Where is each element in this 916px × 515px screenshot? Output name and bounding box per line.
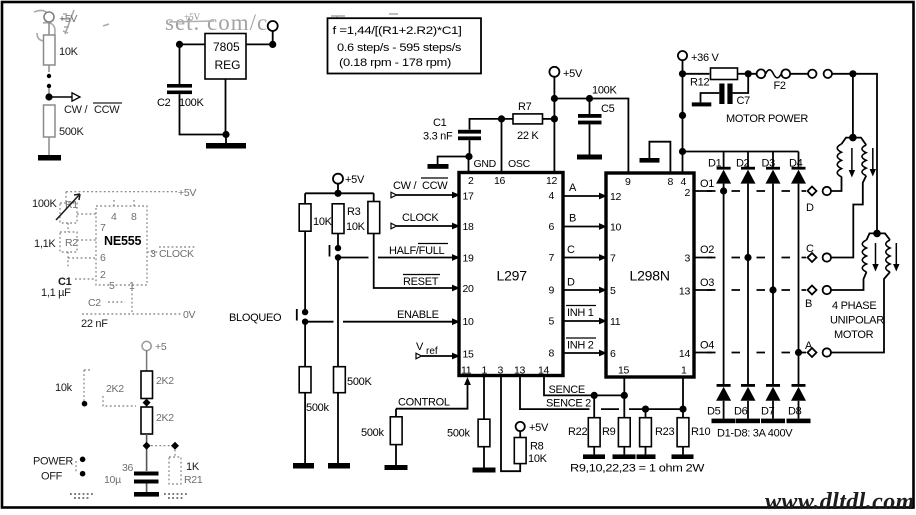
wire +5V rail across pull-ups [305,184,374,204]
wire R2 to C1 (dotted) [67,252,69,268]
IC L297 [459,173,563,376]
wire D4/D8 column [798,184,800,386]
node 7805 ground [222,131,229,138]
wire 7805 ground pin [225,79,227,135]
svg-text:+36 V: +36 V [691,52,720,64]
wire O2 (dashed) [694,244,806,258]
ground (mid pulldown) [328,393,350,469]
ground (C5) [577,155,602,160]
node aux divider mid [143,399,151,407]
svg-text:10k: 10k [55,382,73,394]
svg-text:C7: C7 [737,95,751,107]
L297 right pin numbers 4,6,7,9,5,8 [548,190,554,360]
terminal +5 (aux circuit, faint) [142,341,167,353]
L298N top pin numbers 9,8,4 [625,176,687,188]
regulator 7805 [205,34,246,80]
wire phase A (L297 pin4 to L298N pin12) [563,182,607,199]
svg-text:7805: 7805 [213,40,240,54]
motor winding phase A [877,233,890,272]
svg-text:100K: 100K [32,198,57,210]
wire D2/D6 column [747,184,749,386]
svg-text:ENABLE: ENABLE [397,309,439,321]
svg-text:C2: C2 [88,297,101,309]
svg-text:3: 3 [498,365,504,377]
svg-text:POWER: POWER [33,456,73,468]
svg-text:10: 10 [610,222,622,234]
wire C1 bottom to GND node [469,140,471,156]
svg-text:UNIPOLAR: UNIPOLAR [830,315,884,327]
ground (7805) [206,135,246,149]
svg-text:R12: R12 [690,77,709,89]
node C5 tap [586,95,593,102]
wire phase C to winding [831,176,866,258]
node 7805 input [176,41,183,48]
resistor R12 [683,68,738,89]
wire ENABLE to pin 10 [305,309,460,325]
svg-text:13: 13 [514,365,526,377]
label 4 PHASE UNIPOLAR MOTOR [830,300,884,341]
svg-text:12: 12 [610,191,622,203]
svg-text:+5V: +5V [184,12,201,22]
svg-text:C5: C5 [601,103,615,115]
svg-text:MOTOR POWER: MOTOR POWER [726,113,808,125]
svg-text:A: A [805,340,813,352]
motor winding phase C [853,138,866,176]
svg-text:17: 17 [463,191,475,203]
node +5V / 100K rail [551,95,558,102]
diode D4 [789,152,806,184]
wire RESET pull-up to pin 20 [374,234,460,292]
svg-text:O2: O2 [700,244,714,256]
svg-text:2: 2 [684,187,690,199]
svg-text:GND: GND [474,158,497,170]
svg-text:4 PHASE: 4 PHASE [832,300,876,312]
node C1 / GND [465,153,472,160]
svg-text:11: 11 [461,365,472,377]
input CW/CCW [391,178,460,198]
svg-text:6: 6 [100,252,106,264]
connector phase C [806,243,831,262]
svg-text:INH 1: INH 1 [567,307,594,319]
diode D3 [762,152,781,184]
svg-text:11: 11 [610,316,621,328]
svg-text:500K: 500K [347,376,372,388]
wire phase B (pin6 to pin10) [563,213,607,230]
diode D8 [788,384,806,419]
resistor 500K (divider bottom) [44,105,85,138]
ground (control 500k) [385,445,408,470]
wire GND node to ground [438,157,469,165]
node SENCE / R9 [621,392,628,399]
svg-text:3: 3 [150,248,156,260]
resistor R7 22K [513,101,543,142]
svg-text:0.6 step/s - 595 steps/s: 0.6 step/s - 595 steps/s [337,42,462,54]
terminal +5V (7805 output) [268,21,278,31]
svg-text:500k: 500k [361,427,384,439]
svg-text:OFF: OFF [41,471,63,483]
connector phase D [806,187,831,215]
capacitor C7 [719,74,750,107]
svg-text:D: D [567,277,575,289]
L297 top pin numbers 2,16,12 [468,175,558,187]
L297 left pin numbers 17,18,19,20,10,15 [463,191,475,361]
pin name labels GND OSC [474,158,531,170]
svg-text:+5: +5 [155,341,167,353]
svg-text:R1: R1 [65,199,78,211]
svg-text:CCW: CCW [422,180,448,192]
wire pin 16 (OSC) stub [501,119,503,173]
resistor 500k (pin 1 pulldown) [447,419,490,447]
motor winding phase B [862,233,877,272]
svg-text:0V: 0V [183,309,196,321]
terminal +5V (speed pot divider) [44,12,77,25]
svg-text:13: 13 [679,286,691,298]
capacitor C1 3.3nF [423,117,481,143]
wire phase C (pin7 to pin7) [563,244,607,261]
svg-text:10µ: 10µ [104,474,121,486]
svg-text:C: C [567,244,575,256]
svg-text:+5V: +5V [178,187,196,199]
ground (aux cap) [134,484,159,497]
wire pin 3 to R8 bottom [501,376,520,472]
resistor R10 1 ohm [677,409,710,447]
connector dots (pot wiper) [47,74,51,94]
svg-text:R10: R10 [691,426,710,438]
svg-text:BLOQUEO: BLOQUEO [229,312,282,324]
svg-text:MOTOR: MOTOR [834,329,874,341]
svg-text:A: A [569,182,577,194]
wire INH 1 (pin5 to pin11) [563,306,607,325]
svg-text:8: 8 [131,211,137,223]
svg-text:19: 19 [463,253,475,265]
svg-text:INH 2: INH 2 [567,340,594,352]
wire 7805 input (left) [180,43,206,45]
ground (C7) [692,93,720,106]
ground (aux 1K, dashed) [164,494,187,498]
ground (power off, dashed) [70,494,94,498]
wire left column to 500k [304,322,306,367]
wire diode cathode rail (D1-D4) [683,151,799,153]
wire D1/D5 column [723,184,725,386]
svg-text:500k: 500k [447,428,470,440]
ground (R22) [583,447,605,459]
svg-text:3.3 nF: 3.3 nF [423,131,453,143]
svg-text:9: 9 [625,176,631,188]
wire 10K to BLOQUEO switch [304,231,306,312]
svg-text:www.dltdl.com: www.dltdl.com [765,489,915,515]
svg-text:F2: F2 [774,80,786,92]
svg-text:(0.18 rpm - 178 rpm): (0.18 rpm - 178 rpm) [339,57,451,69]
svg-text:1: 1 [681,365,687,377]
svg-text:9: 9 [548,285,554,297]
svg-text:500K: 500K [59,126,84,138]
switch POWER OFF [33,456,85,483]
current arrow (winding A) [893,243,899,272]
svg-text:C2: C2 [157,97,171,109]
svg-text:100K: 100K [592,85,617,97]
wire pins 4,8 to +5V (dotted) [114,198,134,206]
svg-text:1,1K: 1,1K [34,238,56,250]
svg-text:2: 2 [468,175,474,187]
wire R12 to F2 node [738,73,757,75]
wire 7805 output (right) [246,43,273,45]
wire R3 to HALF/FULL switch [337,234,339,249]
svg-text:D6: D6 [734,406,748,418]
svg-text:6: 6 [548,221,554,233]
node aux 1K tap [171,442,179,450]
diode D5 [707,384,731,419]
wire SENCE 2: pin 13 to R23/R10 to L298N pin 1 [520,376,683,410]
wire 500K to ground [48,137,50,155]
resistor pull-up (RESET) [368,202,380,234]
L298N bottom pin numbers 15,1 [618,365,687,377]
node SENCE2 / R23 [642,406,649,413]
node O4/D4 [795,349,802,356]
resistor R23 1 ohm [640,409,675,447]
ground (D6) [736,419,760,424]
resistor R8 10K [514,431,547,465]
svg-text:R2: R2 [65,237,78,249]
svg-text:7: 7 [548,252,554,264]
resistor 500K (mid pulldown) [334,367,373,393]
wire aux divider to cap [146,434,148,471]
svg-text:HALF/FULL: HALF/FULL [389,245,445,257]
svg-text:6: 6 [610,348,616,360]
wire common feed 1 [852,74,854,138]
terminal +36V [678,51,720,64]
resistor 500k (control) [361,409,402,445]
wire O3 (dashed) [694,277,806,290]
node +36V / R12 [679,70,686,77]
svg-text:7: 7 [610,253,616,265]
wire C5 to ground [589,124,591,154]
svg-text:REG: REG [215,58,241,72]
node motor common 1 [849,134,857,142]
capacitor C2 100K [157,84,204,109]
switch BLOQUEO [229,309,308,325]
wire phase B to winding [831,272,867,290]
terminal +5V (R8) [516,422,549,434]
node SENCE / R22 [591,392,598,399]
ground (L297 GND) [428,164,449,169]
svg-text:2: 2 [100,269,106,281]
current arrow (winding B) [872,243,878,272]
capacitor C5 [578,99,615,125]
svg-text:R7: R7 [518,101,532,113]
wire F2 to supply connector [790,73,808,75]
ground (D8) [787,419,811,424]
svg-text:D1-D8: 3A 400V: D1-D8: 3A 400V [717,428,793,440]
ground (R9) [613,447,636,459]
current arrow (winding C) [870,148,876,177]
svg-text:10K: 10K [313,216,333,228]
svg-text:18: 18 [463,221,475,233]
input Vref [416,341,460,359]
svg-text:8: 8 [668,176,674,188]
svg-text:5: 5 [109,280,115,292]
svg-text:R3: R3 [347,206,361,218]
diode D7 [761,384,781,419]
svg-text:2K2: 2K2 [156,412,174,424]
wire pin 6 (dotted) [68,257,96,259]
capacitor C2 22nF (NE555) [81,297,125,330]
fuse F2 [757,69,791,92]
wire phase A to winding [831,272,890,353]
wire INH 2 (pin8 to pin6) [563,338,607,356]
svg-text:CLOCK: CLOCK [402,212,439,224]
svg-text:2K2: 2K2 [106,383,124,395]
svg-text:10K: 10K [59,46,79,58]
node aux cap top [143,442,151,450]
svg-text:15: 15 [618,365,630,377]
svg-text:R21: R21 [184,474,203,486]
svg-text:SENCE 2: SENCE 2 [546,398,591,410]
wire O1 (dashed) [694,178,806,191]
resistor R2 1,1K (NE555) [34,232,78,252]
resistor 10K (ENABLE pull-up) [299,204,332,231]
svg-text:+5V: +5V [563,68,583,80]
diode D6 [734,384,756,419]
resistor R9 1 ohm [602,395,630,446]
svg-text:R8: R8 [530,441,544,453]
wire 0V rail (NE555, dotted) [82,285,196,321]
node SENCE2 / R10 [679,406,686,413]
resistor 500k (left pulldown) [299,367,329,414]
svg-text:22 nF: 22 nF [81,318,108,330]
svg-text:12: 12 [546,175,558,187]
wire O4 (dashed) [694,340,806,353]
wire SENCE: pin 14 to R22/R9 to L298N pin 15 [544,376,624,396]
resistor 10K (divider top) [44,35,79,65]
svg-text:B: B [805,298,812,310]
wire phase D to winding [831,177,842,191]
node on +36V column [679,112,686,119]
svg-text:O1: O1 [700,178,714,190]
svg-text:V: V [416,341,424,353]
node R7 / pin 12 [551,115,558,122]
connector (motor supply) [808,70,832,78]
svg-text:CW /: CW / [393,180,417,192]
wire +5V rail (NE555, dotted) [66,187,196,202]
svg-text:5: 5 [548,316,554,328]
svg-text:D8: D8 [788,406,802,418]
svg-text:R23: R23 [655,426,674,438]
svg-text:100K: 100K [179,97,204,109]
svg-text:+5V: +5V [529,422,549,434]
L298N left pin numbers 12,10,7,5,11,6 [610,191,622,360]
svg-text:+5V: +5V [59,13,77,25]
wire +36V to pin 4 [682,61,684,173]
capacitor 10u (aux) [104,462,159,486]
svg-text:CCW: CCW [94,104,120,116]
svg-text:O3: O3 [700,277,714,289]
label 10k (aux) with dashed link [55,370,92,407]
svg-text:15: 15 [463,349,475,361]
wire pin 7 to R1/R2 (dotted) [77,214,96,240]
svg-text:5: 5 [610,285,616,297]
wire +5V terminal to 10K [48,22,50,35]
diode D2 [736,152,756,184]
svg-text:R22: R22 [568,426,587,438]
svg-text:14: 14 [679,348,691,360]
wire +5V to pin 12 [553,77,555,173]
svg-text:L298N: L298N [630,268,670,284]
wire 10K to wiper contacts [48,65,50,72]
wire CW/CCW output with arrow [49,93,122,116]
note box: step rate formula [328,18,482,73]
svg-text:R9,10,22,23 = 1 ohm 2W: R9,10,22,23 = 1 ohm 2W [570,463,705,475]
motor winding phase D [837,138,853,177]
svg-text:4: 4 [111,211,117,223]
wire C1 top to OSC node [470,119,514,130]
node O1/D1 [720,187,727,194]
ground (pot divider) [38,155,61,161]
svg-text:R9: R9 [602,426,616,438]
svg-text:10K: 10K [528,453,548,465]
connector phase B [805,286,831,311]
wire pin 1 to 500k [483,376,485,420]
wire R7 right to +5V column [543,118,555,120]
ground (pin 1 500k) [473,447,496,473]
node +5V rail [334,190,341,197]
node motor common 1 feed [849,70,856,77]
svg-text:500k: 500k [306,402,329,414]
terminal +5V (oscillator) [549,67,583,80]
wire supply to motor commons [832,74,877,234]
svg-text:CLOCK: CLOCK [159,248,194,260]
capacitor C1 1,1uF (NE555) [41,276,96,299]
svg-text:4: 4 [548,190,554,202]
svg-text:3: 3 [684,253,690,265]
svg-text:f =1,44/[(R1+2.R2)*C1]: f =1,44/[(R1+2.R2)*C1] [333,25,462,37]
node OSC [498,115,505,122]
svg-text:B: B [569,213,576,225]
svg-text:L297: L297 [497,268,528,284]
switch HALF/FULL select [330,245,342,261]
wire node to C2 [179,44,181,84]
wire CONTROL to pin 11 [396,377,471,409]
wire phase D (pin9 to pin5) [563,277,607,294]
pot R1 100K (NE555) [32,194,80,223]
svg-text:D5: D5 [707,406,721,418]
current arrow (winding D) [849,148,855,178]
diode D1 [708,152,731,184]
ground (R10) [672,447,694,459]
svg-text:CW /: CW / [64,104,88,116]
wire node to 1K (dashed) [151,446,175,457]
input CLOCK [391,212,460,229]
node O3/D3 [769,286,776,293]
svg-text:10K: 10K [346,221,366,233]
wire CLOCK out pin 3 (NE555, dotted) [147,247,196,260]
wire pin 2 (GND) stub [468,157,470,173]
wire pin 8 to ground [649,142,670,173]
wire C2 bottom to 7805 ground node [180,94,227,134]
svg-text:20: 20 [463,283,475,295]
svg-text:NE555: NE555 [104,234,141,248]
IC L298N [606,173,694,377]
node R12 / C7 [745,70,752,77]
svg-text:1K: 1K [186,461,200,473]
node 7805 output [269,41,276,48]
resistor 1K (aux, dashed) [169,457,203,486]
svg-text:1: 1 [482,365,488,377]
svg-text:O4: O4 [700,340,714,352]
svg-text:C1: C1 [433,117,447,129]
svg-text:CONTROL: CONTROL [398,397,450,409]
wire mid column to 500K [337,258,339,367]
svg-text:RESET: RESET [403,276,439,288]
